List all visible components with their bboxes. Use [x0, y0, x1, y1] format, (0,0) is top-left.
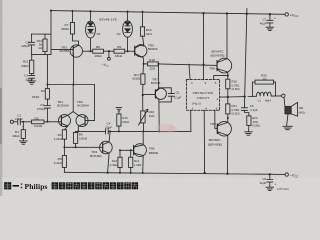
transistor TR5 — [135, 45, 147, 64]
label TR4 BC546A — [90, 150, 102, 158]
svg-text:3,6kΩ: 3,6kΩ — [79, 137, 88, 141]
capacitor C8 — [267, 174, 273, 187]
capacitor C6 — [241, 108, 249, 116]
svg-text:(0,5Ω): (0,5Ω) — [232, 87, 240, 91]
resistor R2 — [32, 120, 62, 124]
resistor R9 — [114, 49, 135, 53]
label R15 10kΩ — [122, 116, 130, 124]
resistor R8 — [93, 49, 114, 53]
svg-text:Philips: Philips — [25, 182, 48, 191]
wire pin3 feed from rail — [203, 13, 205, 79]
resistor R7 — [70, 11, 78, 45]
svg-text:1kΩ: 1kΩ — [149, 114, 155, 118]
input terminal — [10, 120, 17, 123]
svg-text:2,2µF: 2,2µF — [15, 117, 23, 121]
trimmer R16 — [139, 95, 148, 131]
resistor R4 — [62, 130, 66, 156]
label R9 18kΩ — [115, 45, 123, 58]
label speaker 8Ω (4Ω) — [299, 106, 305, 115]
svg-text:(BDV67B): (BDV67B) — [211, 53, 225, 57]
ground above R15 — [116, 108, 122, 111]
svg-text:CIRCUIT: CIRCUIT — [197, 96, 210, 100]
svg-text:kΩ: kΩ — [39, 46, 44, 50]
label R14 1,2kΩ — [134, 159, 142, 167]
wire output rail vertical — [244, 9, 247, 108]
wire pin4 to -Vcc rail — [203, 110, 205, 173]
capacitor C2 — [44, 106, 50, 122]
label BDV67C (BDV67B) — [211, 49, 225, 57]
label TR9 — [210, 122, 216, 126]
label R5 2,4kΩ — [54, 157, 63, 165]
ground below speaker — [283, 126, 293, 129]
pink highlighter smudge — [156, 124, 178, 134]
wire R10 bottom to R3 — [46, 55, 48, 89]
svg-text:BC556A: BC556A — [77, 104, 89, 108]
svg-text:18kΩ: 18kΩ — [94, 54, 102, 58]
label R4 1,2kΩ — [54, 133, 63, 141]
ground below C7 — [266, 27, 274, 30]
ground below C3 — [28, 81, 36, 84]
svg-text:BZV48-1V5: BZV48-1V5 — [99, 17, 116, 21]
svg-text:18kΩ: 18kΩ — [115, 54, 123, 58]
label -Vcc — [290, 172, 299, 178]
svg-text:+: + — [274, 182, 276, 186]
label R20 0,78Ω (0,5Ω) — [232, 79, 241, 91]
speaker — [284, 98, 298, 126]
resistor R6 — [74, 131, 78, 147]
resistor R18 — [144, 62, 217, 66]
svg-text:1287/344: 1287/344 — [277, 187, 289, 191]
svg-text:R15: R15 — [122, 116, 128, 120]
svg-text:270pF: 270pF — [37, 107, 46, 111]
svg-text:1,2kΩ: 1,2kΩ — [54, 137, 63, 141]
inductor L1 — [248, 92, 282, 96]
svg-text:TR9: TR9 — [210, 122, 216, 126]
ground below R23 — [245, 132, 253, 135]
label R11 330Ω — [21, 60, 29, 68]
label pin numbers — [191, 81, 218, 110]
svg-text:L1: L1 — [258, 99, 262, 103]
wire feedback drop to TR2 base — [85, 85, 94, 121]
label R1 10kΩ — [12, 130, 20, 138]
transistor TR2 — [73, 112, 88, 132]
label TR3 BC556 — [60, 45, 70, 53]
output terminal — [282, 94, 285, 97]
svg-text:(3,9Ω): (3,9Ω) — [252, 124, 260, 128]
wire output node — [228, 96, 245, 98]
wire C9/R10 network top — [32, 33, 51, 35]
caption figure title (CJK drawn as vector blocks) — [25, 182, 48, 191]
label R13 2,4kΩ — [110, 159, 118, 167]
svg-text:(Fig 2): (Fig 2) — [192, 102, 201, 106]
svg-text:680Ω: 680Ω — [61, 27, 69, 31]
transistor TR6 — [120, 131, 146, 173]
diode D1 — [86, 11, 96, 51]
terminal -Vcc — [285, 173, 288, 176]
resistor R3 — [45, 89, 49, 106]
svg-text:PROTECTION: PROTECTION — [193, 91, 214, 95]
svg-text:8Ω: 8Ω — [299, 106, 304, 110]
svg-text:D1: D1 — [97, 32, 101, 36]
resistor R17 — [141, 64, 145, 95]
svg-text:620Ω: 620Ω — [132, 77, 140, 81]
svg-text:4µH: 4µH — [265, 99, 271, 103]
ground below R1 — [20, 141, 28, 144]
svg-text:+: + — [274, 17, 276, 21]
label C5 0,1µF — [174, 90, 182, 99]
label R23 10Ω (3,9Ω) — [252, 116, 260, 127]
resistor R14 — [129, 150, 133, 173]
label D1 — [97, 32, 101, 36]
svg-text:C5: C5 — [176, 90, 180, 94]
wire diff pair tail — [72, 85, 74, 112]
capacitor C3 — [29, 76, 35, 81]
resistor R22 — [252, 80, 275, 96]
capacitor C4 — [106, 129, 109, 134]
label R22 1Ω — [261, 73, 267, 81]
wire node y82 — [47, 84, 94, 86]
label C6 0,1µF — [250, 104, 258, 112]
svg-text:R3: R3 — [41, 89, 45, 93]
svg-text:BC546: BC546 — [151, 81, 161, 85]
wire bottom -Vcc rail — [64, 172, 285, 174]
svg-text:1,2kΩ: 1,2kΩ — [134, 163, 142, 167]
label L1 4µH — [258, 99, 271, 103]
svg-text:(BDV66B): (BDV66B) — [208, 142, 222, 146]
label R18 22Ω — [149, 58, 156, 71]
wire left feed vertical — [50, 11, 52, 55]
wire pin6 to TR9 base — [215, 110, 218, 128]
label C8 40µF — [260, 177, 277, 186]
label C2 270pF — [37, 103, 46, 111]
wire pin2 — [190, 110, 192, 131]
label R3 153Ω — [32, 89, 45, 99]
label TR7 BC546 — [151, 77, 161, 85]
svg-text:10kΩ: 10kΩ — [122, 120, 130, 124]
capacitor C5 — [159, 88, 175, 102]
label R2 4,24Ω — [34, 116, 43, 128]
label R21 0,78Ω (0,5Ω) — [232, 104, 241, 116]
svg-text:R9: R9 — [117, 45, 121, 49]
label C9 120pF — [21, 41, 30, 49]
wire TR4 base feed — [64, 146, 102, 148]
resistor R15 — [117, 111, 121, 131]
svg-text:10kΩ: 10kΩ — [12, 134, 20, 138]
label R17 620Ω — [132, 73, 140, 81]
svg-text:+: + — [22, 125, 24, 129]
capacitor C9 — [29, 34, 35, 55]
svg-text:120pF: 120pF — [21, 44, 30, 48]
resistor R10 — [43, 34, 47, 55]
resistor R1 — [21, 122, 25, 141]
svg-text:4,24Ω: 4,24Ω — [34, 124, 43, 128]
resistor R5 — [62, 156, 66, 173]
wire pin4r output sense — [220, 96, 228, 98]
label C7 40µF — [260, 17, 276, 26]
svg-text:153Ω: 153Ω — [32, 95, 40, 99]
svg-text:R14: R14 — [134, 159, 140, 163]
svg-text:0,1µF: 0,1µF — [250, 108, 258, 112]
label TR8 — [209, 66, 215, 70]
wire pin5 to TR8 emitter — [214, 76, 228, 80]
svg-text:R18: R18 — [149, 58, 155, 62]
label R6 3,6kΩ — [79, 132, 88, 140]
svg-text:BC546A: BC546A — [90, 154, 102, 158]
svg-text:TR8: TR8 — [209, 66, 215, 70]
transistor TR4 — [100, 131, 113, 172]
svg-text:91Ω: 91Ω — [146, 32, 152, 36]
svg-text:BC556A: BC556A — [57, 104, 69, 108]
wire driver row y131 — [76, 130, 191, 132]
label protection circuit text — [192, 91, 213, 105]
label 1287/344 — [277, 187, 289, 191]
label D2 — [117, 32, 121, 36]
resistor R11 — [30, 55, 34, 76]
ground below C8 — [266, 187, 274, 190]
label C3 100µF — [24, 74, 33, 82]
svg-text:100µF: 100µF — [25, 77, 33, 81]
svg-text:(0,5Ω): (0,5Ω) — [232, 112, 240, 116]
svg-text:40µF: 40µF — [260, 181, 267, 185]
svg-text:R13: R13 — [112, 159, 118, 163]
svg-text:2,4kΩ: 2,4kΩ — [54, 161, 63, 165]
terminal +Vcc — [285, 13, 288, 16]
wire C9/R10 network bottom — [32, 54, 51, 56]
label BZV48-1V5 — [99, 17, 116, 21]
svg-text:BD830: BD830 — [149, 151, 159, 155]
svg-text:R8: R8 — [96, 45, 100, 49]
wire pin1 — [189, 64, 190, 79]
label R10 — [37, 39, 44, 50]
resistor R20 — [226, 79, 230, 104]
label TR2 BC556A — [77, 100, 90, 108]
label TR1 BC556A — [57, 100, 69, 108]
svg-text:330Ω: 330Ω — [21, 64, 29, 68]
svg-text:0,1µF: 0,1µF — [174, 96, 182, 100]
label +Vcc — [290, 12, 299, 18]
svg-text:22Ω: 22Ω — [149, 67, 155, 71]
wire top +Vcc rail — [51, 11, 285, 15]
label C1 2,2µF — [15, 114, 24, 129]
label TR5 BD829 — [148, 44, 158, 52]
protection circuit box — [186, 80, 219, 111]
capacitor C7 — [267, 14, 273, 27]
transistor TR1 — [59, 112, 74, 130]
diode D2 — [123, 11, 133, 51]
svg-text:1Ω: 1Ω — [262, 77, 267, 81]
svg-text:33pF: 33pF — [105, 125, 112, 129]
transistor TR7 — [143, 64, 167, 131]
svg-text:BD829: BD829 — [148, 47, 158, 51]
label R7 680Ω — [61, 23, 69, 31]
wire TR8 collector feed — [226, 14, 228, 59]
resistor R21 — [226, 104, 230, 123]
svg-text:2,4kΩ: 2,4kΩ — [110, 163, 118, 167]
label C4 33pF — [105, 122, 112, 130]
wire VAS row y51 — [83, 50, 93, 52]
svg-text:(4Ω): (4Ω) — [299, 110, 305, 114]
resistor R13 — [118, 150, 122, 173]
transistor TR9 — [217, 122, 231, 174]
resistor R19 — [140, 12, 144, 46]
label TR6 BD830 — [149, 147, 159, 155]
svg-text:40µF: 40µF — [260, 21, 267, 25]
label -Vcc mid — [102, 63, 110, 68]
label R8 18kΩ — [94, 45, 102, 58]
svg-text:R2: R2 — [35, 116, 39, 120]
svg-text:BC556: BC556 — [60, 49, 70, 53]
transistor TR8 — [217, 58, 232, 79]
label BDV66C (BDV66B) — [208, 138, 222, 146]
capacitor C1 — [18, 119, 32, 125]
resistor R23 — [247, 116, 251, 132]
label R19 91Ω — [146, 28, 153, 36]
svg-text:D2: D2 — [117, 32, 121, 36]
label R16 1kΩ — [149, 110, 156, 118]
transistor TR3 — [51, 45, 83, 85]
node -Vcc drop — [108, 51, 111, 60]
